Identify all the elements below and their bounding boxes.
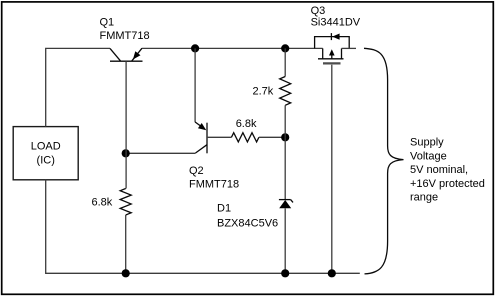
- svg-text:range: range: [410, 192, 438, 204]
- svg-text:6.8k: 6.8k: [236, 118, 257, 130]
- body-diode loop: [315, 37, 350, 49]
- node: junction dot bottom rail middle: [281, 269, 289, 277]
- resistor R (6.8k upper): [231, 133, 259, 142]
- transistor Q1 (PNP FMMT718): [110, 48, 143, 61]
- svg-text:6.8k: 6.8k: [92, 197, 113, 209]
- wire: LOAD top to top rail: [46, 48, 110, 126]
- source leg: [341, 48, 343, 58]
- wire: middle vertical top segment: [284, 48, 286, 76]
- svg-text:FMMT718: FMMT718: [189, 178, 239, 190]
- wire: Q1 base vertical down: [125, 61, 127, 188]
- wire: Q2 base to resistor: [207, 136, 231, 138]
- node: junction dot middle vertical: [281, 133, 289, 141]
- svg-text:5V nominal,: 5V nominal,: [410, 164, 468, 176]
- channel bar: [318, 58, 344, 60]
- svg-text:Voltage: Voltage: [410, 150, 447, 162]
- svg-text:Q3: Q3: [311, 5, 326, 17]
- resistor R (6.8k left): [120, 189, 131, 216]
- wire: gate to bottom rail: [331, 65, 333, 274]
- node: junction dot left vertical: [122, 149, 130, 157]
- node: junction dot top rail / Q2 feed: [191, 44, 199, 52]
- wire: LOAD bottom to bottom rail: [46, 180, 360, 273]
- LOAD (IC) box: [13, 127, 78, 180]
- wire: junction down to zener: [284, 137, 286, 199]
- transistor Q2 (PNP FMMT718): [195, 122, 207, 153]
- svg-text:Supply: Supply: [410, 137, 444, 149]
- wire: zener to bottom rail: [284, 208, 286, 273]
- svg-text:LOAD: LOAD: [31, 141, 61, 153]
- resistor R (2.7k): [280, 77, 291, 106]
- svg-text:Q1: Q1: [100, 17, 115, 29]
- svg-text:+16V protected: +16V protected: [410, 178, 485, 190]
- transistor Q3 (p-MOSFET Si3441DV): [315, 33, 350, 63]
- node: junction dot bottom rail gate: [328, 269, 336, 277]
- wire: 2.7k to junction: [284, 105, 286, 137]
- svg-text:2.7k: 2.7k: [253, 86, 274, 98]
- svg-text:Si3441DV: Si3441DV: [311, 17, 361, 29]
- wire: top rail Q1 emitter to MOSFET drain: [142, 47, 323, 49]
- diode D1 zener BZX84C5V6: [279, 200, 293, 209]
- gate bar: [323, 62, 341, 64]
- svg-text:(IC): (IC): [37, 154, 55, 166]
- brace (supply voltage): [364, 48, 404, 274]
- svg-text:BZX84C5V6: BZX84C5V6: [217, 218, 278, 230]
- wire: Q2 emitter feed vertical: [194, 48, 196, 122]
- wire: resistor to middle vertical: [259, 136, 285, 138]
- svg-text:Q2: Q2: [189, 165, 204, 177]
- wire: Q2 collector to left vertical: [126, 152, 196, 154]
- node: junction dot bottom rail left: [122, 269, 130, 277]
- wire: top rail right of MOSFET: [342, 47, 357, 49]
- body arrow (up): [331, 53, 333, 59]
- node: junction dot top rail / 2.7k: [281, 44, 289, 52]
- svg-text:D1: D1: [217, 203, 231, 215]
- drain leg: [322, 48, 324, 58]
- svg-text:FMMT718: FMMT718: [100, 30, 150, 42]
- wire: left vertical to bottom rail: [125, 215, 127, 273]
